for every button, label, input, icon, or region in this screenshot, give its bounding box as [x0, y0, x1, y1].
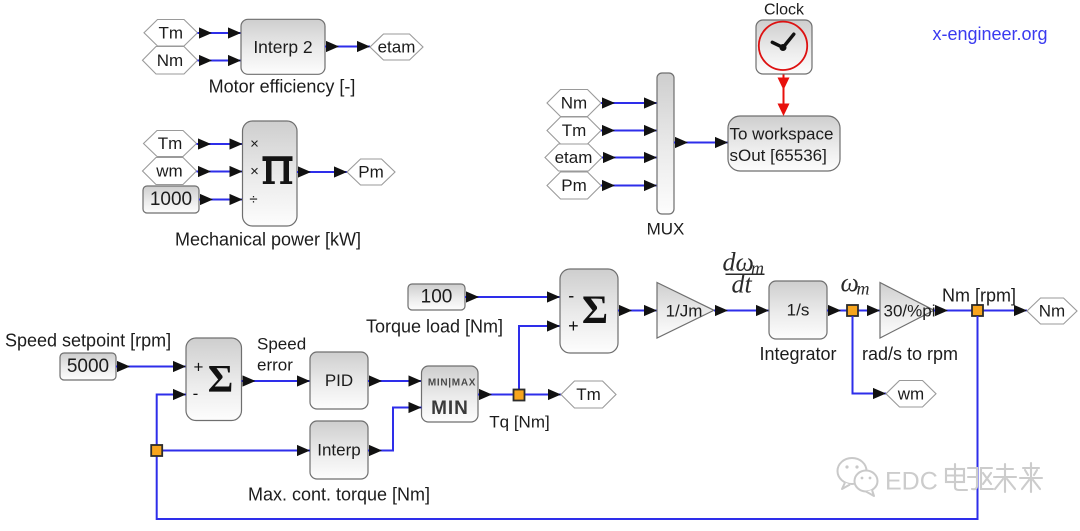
label Tq [Nm]	[489, 412, 549, 431]
svg-text:dt: dt	[732, 270, 753, 299]
input tag Nm (mux)	[547, 90, 601, 117]
svg-text:Nm: Nm	[1039, 302, 1065, 321]
svg-text:Torque load [Nm]: Torque load [Nm]	[366, 317, 503, 337]
wire Tm to Interp 2 in1	[198, 27, 242, 38]
feedback wire up to sum1 minus	[157, 389, 186, 445]
svg-text:Nm: Nm	[157, 51, 183, 70]
wire Tq junction up to sum2 plus	[519, 320, 560, 389]
svg-text:PID: PID	[325, 371, 353, 390]
wire MIN out to Tm tag	[478, 389, 561, 400]
wire etam to MUX in3	[602, 152, 657, 163]
block sum2 (-/+ Sigma)	[560, 269, 618, 353]
wire MUX to To workspace	[674, 137, 728, 148]
svg-text:5000: 5000	[67, 356, 109, 377]
math label wm (omega_m)	[841, 268, 870, 299]
wire 30/%pi to Nm tag	[934, 305, 1027, 316]
input tag Tm (mech power)	[144, 131, 197, 157]
svg-text:Tm: Tm	[158, 134, 183, 153]
svg-text:MIN: MIN	[431, 398, 469, 419]
wire 100 to sum2 minus	[465, 291, 560, 302]
output tag Pm	[347, 159, 395, 185]
label Motor efficiency [-]	[209, 76, 356, 96]
svg-text:Nm: Nm	[561, 94, 587, 113]
svg-text:1/Jm: 1/Jm	[666, 302, 703, 321]
wire product to Pm	[297, 166, 347, 177]
label Torque load [Nm]	[366, 317, 503, 337]
input tag Pm (mux)	[547, 172, 601, 199]
svg-text:x-engineer.org: x-engineer.org	[932, 24, 1047, 44]
svg-text:MUX: MUX	[647, 220, 685, 239]
block sum1 (+/- Sigma)	[186, 338, 242, 421]
block integrator 1/s	[769, 281, 827, 339]
wire 1000 to product in3	[199, 194, 243, 205]
svg-text:wm: wm	[155, 162, 182, 181]
watermark WeChat icon	[838, 458, 878, 496]
svg-text:÷: ÷	[249, 191, 257, 208]
svg-text:EDC: EDC	[885, 468, 938, 496]
wire Pm to MUX in4	[601, 180, 657, 191]
label Speed error line2	[257, 356, 293, 375]
label MUX	[647, 220, 685, 239]
svg-text:Mechanical power [kW]: Mechanical power [kW]	[175, 230, 361, 250]
svg-text:1/s: 1/s	[787, 301, 810, 320]
svg-text:Speed setpoint [rpm]: Speed setpoint [rpm]	[5, 331, 171, 351]
constant block 1000	[143, 186, 199, 213]
svg-text:etam: etam	[378, 38, 416, 57]
wire wm to product in2	[197, 166, 243, 177]
input tag Tm (motor efficiency)	[144, 20, 198, 47]
label Nm [rpm]	[942, 286, 1016, 306]
svg-text:1000: 1000	[150, 189, 192, 210]
wire sum1 to PID	[242, 375, 311, 386]
svg-text:Σ: Σ	[208, 357, 234, 400]
input tag Tm (mux)	[547, 117, 601, 144]
block PID controller	[310, 352, 368, 409]
block To workspace sOut [65536]	[728, 116, 840, 171]
junction speed feedback (orange)	[151, 445, 162, 456]
svg-text:-: -	[193, 384, 199, 403]
wire Interp to MIN in2	[368, 402, 422, 456]
label Clock	[764, 1, 805, 18]
svg-text:Pm: Pm	[358, 163, 384, 182]
watermark CJK characters (dian qu wei lai)	[946, 463, 1042, 492]
block Interp (1-D lookup)	[310, 421, 368, 479]
wire wm junction down to wm tag	[853, 316, 887, 399]
junction Tq (orange)	[514, 390, 525, 401]
svg-text:Tm: Tm	[562, 121, 587, 140]
output tag wm	[886, 381, 936, 408]
svg-text:Tq [Nm]: Tq [Nm]	[489, 412, 549, 431]
gain block 1/Jm (triangle)	[657, 283, 714, 339]
svg-text:Pm: Pm	[561, 176, 587, 195]
wire PID to MIN in1	[368, 375, 422, 386]
svg-text:etam: etam	[555, 148, 593, 167]
block Clock	[756, 20, 812, 74]
output tag etam	[370, 34, 423, 60]
output tag Nm (rpm)	[1027, 298, 1077, 324]
svg-text:Tm: Tm	[576, 385, 601, 404]
svg-text:Speed: Speed	[257, 335, 306, 354]
block U1 Interp 2 (2-D lookup)	[241, 19, 325, 74]
svg-text:Tm: Tm	[158, 23, 183, 42]
svg-text:+: +	[194, 358, 204, 377]
svg-text:Clock: Clock	[764, 1, 805, 18]
wire 5000 to sum1 plus	[116, 361, 186, 372]
label Max. cont. torque [Nm]	[248, 485, 430, 505]
svg-text:rad/s to rpm: rad/s to rpm	[862, 344, 958, 364]
math label dwm/dt	[723, 248, 765, 299]
gain block 30/%pi (triangle)	[880, 283, 935, 339]
svg-text:×: ×	[250, 163, 259, 180]
label Mechanical power [kW]	[175, 230, 361, 250]
svg-text:MIN|MAX: MIN|MAX	[428, 378, 476, 389]
wire Tm to product in1	[197, 138, 243, 149]
svg-text:Motor efficiency [-]: Motor efficiency [-]	[209, 76, 356, 96]
output tag Tm (torque)	[561, 381, 616, 408]
feedback wire Nm down and across bottom	[157, 316, 978, 519]
wire Nm to MUX in1	[601, 97, 657, 108]
feedback wire junction to Interp input	[162, 445, 310, 456]
svg-text:Nm [rpm]: Nm [rpm]	[942, 286, 1016, 306]
svg-text:Max. cont. torque [Nm]: Max. cont. torque [Nm]	[248, 485, 430, 505]
wire integrator to gain 30/%pi	[827, 305, 880, 316]
svg-text:Interp: Interp	[317, 441, 360, 460]
svg-text:wm: wm	[897, 384, 924, 403]
constant block 100	[408, 284, 465, 310]
svg-text:Interp 2: Interp 2	[253, 37, 312, 57]
block product (x,x,/) PROD	[243, 121, 298, 226]
block MIN (min/max)	[422, 366, 479, 422]
red event wire Clock to To workspace	[778, 75, 790, 117]
svg-text:sOut [65536]: sOut [65536]	[730, 146, 827, 165]
wire sum2 to gain 1/Jm	[618, 305, 657, 316]
label Speed error line1	[257, 335, 306, 354]
junction wm (orange)	[847, 305, 858, 316]
svg-text:30/%pi: 30/%pi	[884, 302, 936, 321]
svg-text:-: -	[568, 286, 574, 306]
input tag wm (mech power)	[143, 158, 197, 185]
link text x-engineer.org	[932, 24, 1047, 44]
svg-text:×: ×	[250, 136, 259, 153]
svg-text:m: m	[857, 279, 870, 299]
input tag Nm (motor efficiency)	[143, 47, 198, 75]
svg-text:To workspace: To workspace	[730, 125, 834, 144]
label rad/s to rpm	[862, 344, 958, 364]
input tag etam (mux)	[545, 144, 602, 171]
svg-text:Integrator: Integrator	[759, 344, 836, 364]
wire Tm to MUX in2	[601, 125, 657, 136]
watermark text EDC	[885, 468, 938, 496]
constant block 5000	[60, 353, 116, 380]
wire Nm to Interp 2 in2	[198, 55, 242, 66]
block MUX multiplexer bar	[657, 73, 674, 214]
junction Nm rpm (orange)	[972, 305, 983, 316]
label Integrator	[759, 344, 836, 364]
label Speed setpoint [rpm]	[5, 331, 171, 351]
svg-text:Σ: Σ	[582, 287, 608, 332]
wire Interp 2 to etam	[325, 41, 370, 52]
wire 1/Jm to integrator	[714, 305, 769, 316]
svg-text:+: +	[568, 316, 579, 336]
svg-text:100: 100	[421, 287, 453, 308]
svg-text:error: error	[257, 356, 293, 375]
